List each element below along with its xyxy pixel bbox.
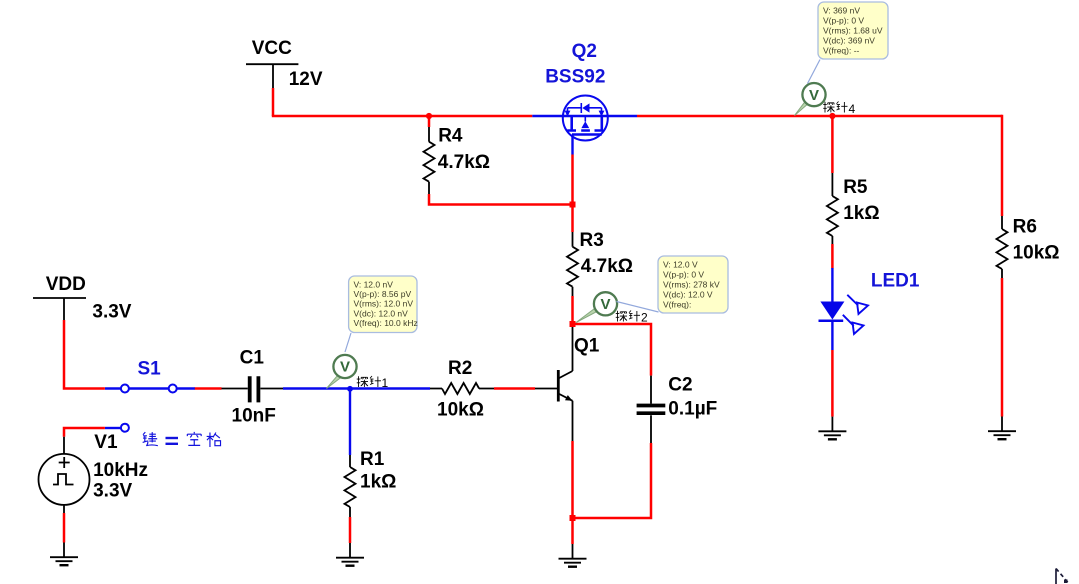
svg-text:Q2: Q2 (572, 41, 597, 62)
svg-text:Q1: Q1 (574, 336, 600, 357)
svg-text:C1: C1 (240, 348, 265, 369)
svg-text:10kΩ: 10kΩ (437, 400, 484, 421)
svg-text:10kΩ: 10kΩ (1013, 243, 1060, 264)
svg-text:3.3V: 3.3V (93, 481, 132, 502)
svg-text:1: 1 (382, 376, 389, 390)
svg-text:V(dc): 12.0 nV: V(dc): 12.0 nV (354, 308, 409, 318)
svg-text:V(p-p): 8.56 pV: V(p-p): 8.56 pV (354, 289, 412, 299)
svg-text:V1: V1 (94, 432, 118, 453)
svg-text:V(freq): --: V(freq): -- (823, 46, 860, 56)
svg-text:V(p-p): 0 V: V(p-p): 0 V (663, 270, 704, 280)
svg-text:V(freq):: V(freq): (663, 300, 691, 310)
svg-text:0.1µF: 0.1µF (668, 399, 717, 420)
svg-text:V(freq): 10.0 kHz: V(freq): 10.0 kHz (354, 318, 418, 328)
svg-text:C2: C2 (668, 375, 692, 396)
svg-text:12V: 12V (289, 69, 323, 90)
svg-text:V(dc): 12.0 V: V(dc): 12.0 V (663, 290, 713, 300)
svg-text:LED1: LED1 (871, 271, 920, 292)
svg-text:R1: R1 (360, 449, 385, 470)
svg-text:4.7kΩ: 4.7kΩ (438, 152, 490, 173)
svg-text:10kHz: 10kHz (93, 460, 148, 481)
svg-text:10nF: 10nF (232, 406, 276, 427)
svg-text:VDD: VDD (46, 274, 86, 295)
svg-text:V: 12.0 V: V: 12.0 V (663, 260, 698, 270)
svg-text:4.7kΩ: 4.7kΩ (581, 256, 633, 277)
svg-text:2: 2 (641, 311, 648, 325)
svg-text:R2: R2 (448, 358, 472, 379)
svg-text:3.3V: 3.3V (92, 302, 131, 323)
svg-text:V(dc): 369 nV: V(dc): 369 nV (823, 36, 875, 46)
svg-text:R5: R5 (843, 177, 868, 198)
svg-text:VCC: VCC (252, 38, 292, 59)
svg-text:R4: R4 (438, 126, 463, 147)
svg-text:S1: S1 (138, 359, 162, 380)
svg-text:V: 12.0 nV: V: 12.0 nV (354, 279, 394, 289)
svg-text:4: 4 (849, 102, 856, 116)
svg-text:R6: R6 (1013, 217, 1037, 238)
svg-text:1kΩ: 1kΩ (360, 472, 396, 493)
svg-text:1kΩ: 1kΩ (843, 203, 879, 224)
svg-text:BSS92: BSS92 (545, 67, 605, 88)
svg-text:V(rms): 278 kV: V(rms): 278 kV (663, 280, 720, 290)
svg-text:R3: R3 (580, 230, 604, 251)
svg-text:V(rms): 1.68 uV: V(rms): 1.68 uV (823, 26, 883, 36)
svg-text:V: 369 nV: V: 369 nV (823, 6, 860, 16)
svg-text:V(rms): 12.0 nV: V(rms): 12.0 nV (354, 299, 414, 309)
svg-text:V(p-p): 0 V: V(p-p): 0 V (823, 16, 864, 26)
